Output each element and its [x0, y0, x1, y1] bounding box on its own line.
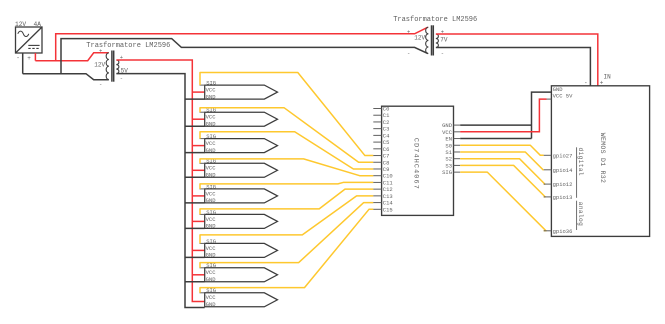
svg-text:SIG: SIG	[442, 169, 452, 176]
node digital pin group bracket	[577, 147, 584, 198]
wire VCC tap to connector J7 (red)	[192, 249, 204, 251]
wire VCC tap to connector J1 (red)	[192, 91, 204, 93]
svg-text:gpio36: gpio36	[553, 228, 573, 235]
wire GND tap to connector J3 (black)	[185, 152, 205, 154]
pin C0 of U1	[373, 106, 389, 113]
pin C8 of U1	[373, 159, 389, 166]
wire VCC tap to connector J5 (red)	[192, 195, 204, 197]
transformer T1 LM2596 12V to 5V	[106, 51, 119, 82]
svg-text:+: +	[99, 47, 102, 54]
svg-text:CD74HC4067: CD74HC4067	[411, 138, 419, 190]
wire VCC tap to connector J8 (red)	[192, 274, 204, 276]
wire SIG of J7 to mux C13 (yellow)	[200, 196, 373, 244]
wire VCC tap to connector J4 (red)	[192, 169, 204, 171]
svg-text:12V: 12V	[15, 21, 26, 28]
pin C7 of U1	[373, 153, 389, 160]
svg-text:+: +	[407, 29, 410, 36]
wire T2 7V- output to board IN- (black)	[436, 48, 591, 86]
wire PS1 plus lead (red)	[34, 53, 36, 61]
wire U1 S3 to board gpio13 (yellow)	[460, 165, 545, 196]
svg-text:analog: analog	[577, 202, 584, 226]
wire SIG of J6 to mux C12 (yellow)	[200, 189, 373, 214]
svg-text:Trasformatore LM2596: Trasformatore LM2596	[393, 16, 477, 24]
wire SIG of J5 to mux C11 (yellow)	[200, 182, 373, 188]
pin S3 of U1	[445, 162, 460, 169]
svg-text:-: -	[441, 50, 444, 57]
wire PS1 minus lead (black)	[22, 53, 24, 74]
connector J7 sensor header (SIG/VCC/GND)	[200, 238, 278, 259]
svg-text:-: -	[120, 75, 123, 82]
wire GND tap to connector J4 (black)	[185, 176, 205, 178]
svg-text:gpio12: gpio12	[553, 181, 573, 188]
wire 12V- branch up and across to transformer T2 (black)	[61, 39, 428, 74]
svg-text:SIG: SIG	[206, 80, 216, 87]
svg-text:gpio14: gpio14	[553, 167, 574, 174]
pin S1 of U1	[445, 149, 460, 156]
connector J3 sensor header (SIG/VCC/GND)	[200, 133, 278, 154]
svg-text:-: -	[407, 50, 410, 57]
svg-text:12V: 12V	[94, 61, 105, 68]
pin C11 of U1	[373, 179, 393, 186]
pin VCC 5V of U2	[547, 93, 574, 100]
wire 12V+ rail to transformer T1 (red)	[35, 53, 108, 61]
wire SIG of J9 to mux C15 (yellow)	[200, 209, 373, 292]
svg-text:VCC 5V: VCC 5V	[553, 93, 574, 100]
svg-text:SIG: SIG	[206, 133, 216, 140]
svg-text:GND: GND	[206, 301, 217, 308]
wire U1 GND and EN tied to board GND (black)	[460, 92, 551, 138]
power supply PS1 12V 4A AC-DC adapter	[16, 27, 43, 53]
wire SIG of J1 to mux C7 (yellow)	[200, 73, 373, 156]
wire 5V GND bus (black)	[116, 74, 204, 308]
pin C12 of U1	[373, 186, 392, 193]
wire U1 VCC to board VCC 5V (red)	[460, 99, 546, 132]
wire GND tap to connector J5 (black)	[185, 202, 205, 204]
connector J2 sensor header (SIG/VCC/GND)	[200, 107, 278, 128]
connector J5 sensor header (SIG/VCC/GND)	[200, 183, 278, 204]
pin C14 of U1	[373, 200, 393, 207]
wire SIG of J3 to mux C9 (yellow)	[200, 132, 373, 169]
pin C6 of U1	[373, 146, 389, 153]
svg-text:GND: GND	[206, 252, 217, 259]
pin gpio13 of U2	[544, 194, 573, 201]
svg-text:C15: C15	[383, 206, 393, 213]
transformer T2 LM2596 12V to 7V	[426, 25, 439, 55]
svg-text:digital: digital	[577, 148, 584, 176]
wire GND tap to connector J6 (black)	[185, 227, 205, 229]
svg-text:GND: GND	[206, 147, 217, 154]
pin VCC of U1	[442, 129, 460, 136]
pin gpio14 of U2	[544, 167, 573, 174]
wire U1 S0 to board gpio27 (yellow)	[460, 145, 544, 155]
wire 12V- rail to transformer T1 (black)	[23, 74, 109, 80]
wire GND tap to connector J2 (black)	[185, 125, 205, 127]
svg-text:7V: 7V	[440, 36, 448, 43]
pin gpio12 of U2	[544, 181, 573, 188]
pin C2 of U1	[373, 119, 389, 126]
pin C10 of U1	[373, 173, 392, 180]
pin S0 of U1	[445, 142, 460, 149]
connector J1 sensor header (SIG/VCC/GND)	[200, 80, 278, 101]
svg-text:-: -	[16, 55, 20, 62]
wire 12V+ branch up to transformer T2 (red)	[56, 27, 428, 61]
svg-text:-: -	[99, 81, 102, 88]
pin C13 of U1	[373, 193, 392, 200]
svg-text:SIG: SIG	[206, 238, 216, 245]
connector J4 sensor header (SIG/VCC/GND)	[200, 158, 278, 179]
wire VCC tap to connector J2 (red)	[192, 118, 204, 120]
svg-text:GND: GND	[206, 172, 217, 179]
wire U1 S1 to board gpio14 (yellow)	[460, 152, 544, 170]
pin gpio27 of U2	[544, 152, 573, 159]
wire GND tap to connector J8 (black)	[185, 281, 205, 283]
wire U1 SIG to board gpio36 (yellow)	[460, 172, 546, 231]
svg-text:GND: GND	[206, 223, 217, 230]
svg-text:SIG: SIG	[206, 209, 216, 216]
connector J9 sensor header (SIG/VCC/GND)	[200, 287, 278, 308]
svg-text:+: +	[27, 55, 31, 62]
pin gpio36 of U2	[544, 228, 573, 235]
transistor U2 : WEMOS D1 R32 board body	[551, 86, 649, 237]
wire VCC tap to connector J6 (red)	[192, 220, 204, 222]
wire GND tap to connector J7 (black)	[185, 256, 205, 258]
pin S2 of U1	[445, 156, 460, 163]
svg-text:GND: GND	[206, 121, 217, 128]
node analog pin group bracket	[577, 201, 584, 230]
svg-text:12V: 12V	[414, 35, 425, 42]
pin C5 of U1	[373, 139, 389, 146]
pin C9 of U1	[373, 166, 389, 173]
pin C3 of U1	[373, 126, 389, 133]
wire SIG of J8 to mux C14 (yellow)	[200, 203, 373, 268]
pin C1 of U1	[373, 112, 390, 119]
wire 5V VCC bus (red)	[116, 60, 204, 302]
op-amp U1 : analog multiplexer CD74HC4067 body	[382, 106, 454, 215]
wire SIG of J4 to mux C10 (yellow)	[200, 159, 373, 176]
pin C15 of U1	[373, 206, 392, 213]
svg-text:GND: GND	[206, 197, 217, 204]
wire T2 7V+ output to board IN+ (red)	[436, 34, 598, 86]
wire GND tap to connector J1 (black)	[185, 98, 205, 100]
svg-text:gpio13: gpio13	[553, 194, 573, 201]
connector J6 sensor header (SIG/VCC/GND)	[200, 209, 278, 230]
svg-text:GND: GND	[206, 276, 217, 283]
wire SIG of J2 to mux C8 (yellow)	[200, 108, 373, 162]
pin GND of U1	[442, 122, 460, 129]
svg-text:IN: IN	[604, 74, 612, 81]
svg-text:gpio27: gpio27	[553, 152, 573, 159]
wire VCC tap to connector J3 (red)	[192, 145, 204, 147]
pin EN of U1	[445, 136, 460, 143]
connector J8 sensor header (SIG/VCC/GND)	[200, 262, 278, 283]
wire U1 S2 to board gpio12 (yellow)	[460, 159, 545, 184]
pin C4 of U1	[373, 132, 390, 139]
pin GND of U2	[553, 86, 564, 93]
svg-text:WEMOS D1 R32: WEMOS D1 R32	[599, 133, 606, 183]
pin SIG of U1	[442, 169, 460, 176]
svg-text:4A: 4A	[34, 21, 42, 28]
svg-text:GND: GND	[206, 93, 217, 100]
